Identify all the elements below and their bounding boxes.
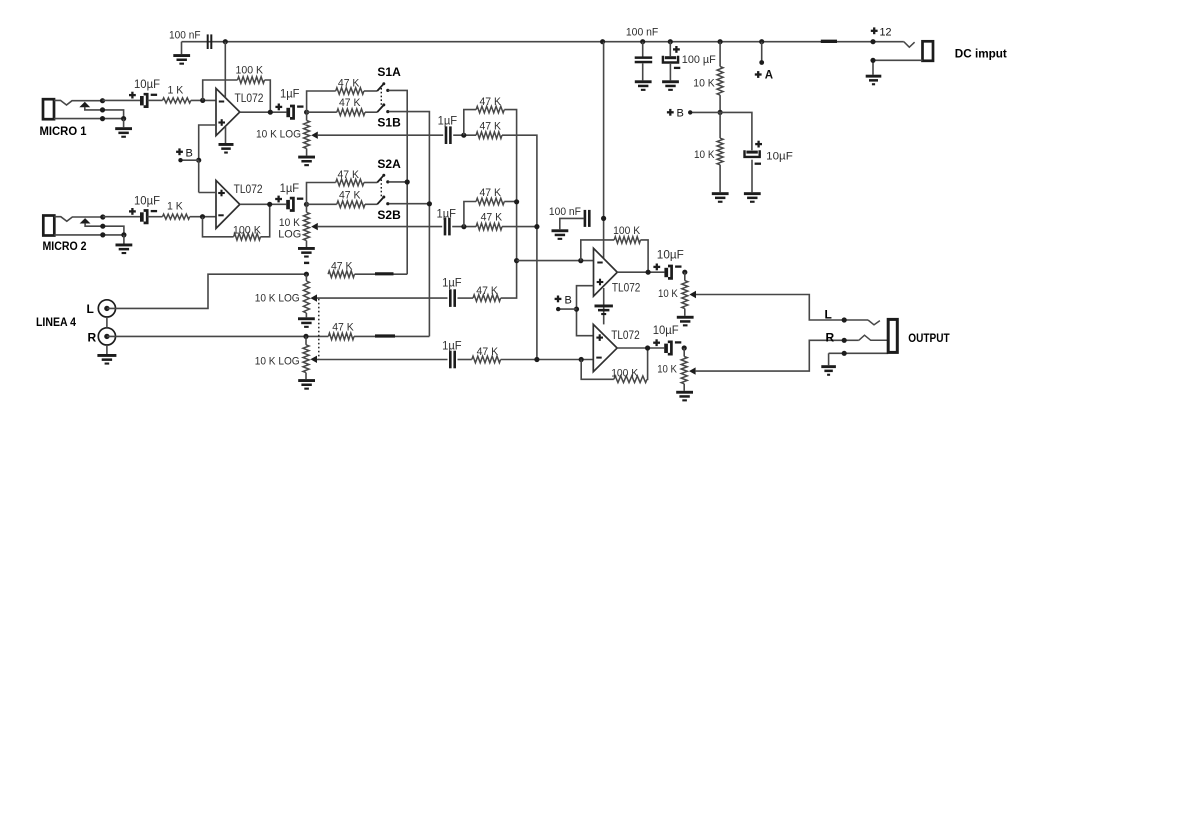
capacitor 10uF mic1 bbox=[129, 92, 157, 107]
resistor 47K mic1 to R bus bbox=[476, 132, 502, 139]
node mic2 mix split bbox=[461, 224, 466, 229]
node S2A on bus A bbox=[405, 179, 410, 184]
node +12 point bbox=[870, 39, 875, 44]
wire opamp2 output bbox=[240, 203, 286, 205]
ground 10uF +B bbox=[751, 160, 753, 193]
feedback loop opamp2: 100K bbox=[203, 217, 234, 237]
ground pot1 bbox=[306, 149, 308, 156]
jack MICRO 2 tip contact bbox=[54, 217, 103, 222]
ground 100uF bbox=[669, 63, 671, 80]
wire cap to R 1K mic2 bbox=[148, 216, 163, 218]
svg-text:10 K: 10 K bbox=[658, 288, 678, 300]
wire output R row bbox=[844, 339, 859, 341]
wire 100nF to ground bbox=[560, 218, 584, 229]
svg-text:L: L bbox=[87, 302, 94, 316]
ground shared op3-op4 bbox=[595, 305, 613, 316]
ground pot4 bbox=[305, 373, 307, 380]
svg-text:S1A: S1A bbox=[377, 65, 401, 79]
svg-text:S2A: S2A bbox=[377, 157, 401, 171]
svg-text:10 K: 10 K bbox=[657, 363, 677, 375]
svg-text:1µF: 1µF bbox=[438, 116, 458, 128]
svg-text:100 K: 100 K bbox=[233, 224, 262, 236]
wire mic1 node up to S1A row bbox=[307, 91, 336, 112]
svg-text:S2B: S2B bbox=[377, 208, 401, 222]
switch S1B bbox=[377, 103, 389, 113]
ground 10K lower bbox=[719, 165, 721, 192]
svg-text:47 K: 47 K bbox=[477, 346, 499, 358]
wire opamp1 + input to +B bbox=[199, 125, 216, 160]
node opamp3 inverting bbox=[578, 258, 583, 263]
svg-text:47 K: 47 K bbox=[332, 322, 354, 334]
op-amp U2A TL072 bbox=[594, 248, 618, 296]
output ground row bbox=[829, 352, 889, 354]
wire 1K to node bbox=[191, 99, 216, 101]
capacitor 100uF body bbox=[663, 56, 678, 63]
wire opamp1 output bbox=[240, 111, 287, 113]
wire S2A contact to bus A bbox=[388, 181, 407, 183]
capacitor 10uF out R bbox=[653, 339, 681, 354]
wire +B to 10uF filter bbox=[720, 112, 752, 150]
resistor 47K line-L bbox=[328, 271, 354, 278]
svg-text:10 K LOG: 10 K LOG bbox=[255, 355, 300, 367]
svg-text:MICRO 2: MICRO 2 bbox=[43, 239, 87, 253]
node opamp1 output bbox=[268, 110, 273, 115]
svg-text:OUTPUT: OUTPUT bbox=[908, 333, 949, 345]
node rail-100nF bbox=[640, 39, 645, 44]
svg-text:100 K: 100 K bbox=[611, 367, 639, 379]
node rail-opamp3 bus bbox=[600, 39, 605, 44]
svg-text:TL072: TL072 bbox=[612, 282, 641, 294]
potentiometer 10K out R bbox=[683, 348, 685, 357]
svg-text:S1B: S1B bbox=[377, 116, 401, 130]
svg-text:1µF: 1µF bbox=[280, 89, 300, 101]
svg-text:47 K: 47 K bbox=[339, 97, 361, 109]
wire +B stub out amps bbox=[558, 308, 576, 310]
op-amp U1A TL072 bbox=[216, 88, 240, 135]
wire node up to 47K-L row bbox=[464, 110, 476, 136]
wire node up to 47K-L row mic2 bbox=[464, 202, 476, 227]
wire mic1 node to S1B row 47K bbox=[307, 111, 337, 113]
ground G-railcap bbox=[181, 42, 183, 54]
stray dash below pot2 ground bbox=[304, 262, 309, 264]
node rail-10K bbox=[718, 39, 723, 44]
ground pot3 bbox=[305, 313, 307, 317]
svg-text:10 K: 10 K bbox=[279, 217, 301, 229]
svg-text:1 K: 1 K bbox=[168, 85, 184, 97]
svg-text:100 K: 100 K bbox=[236, 65, 264, 77]
svg-text:R: R bbox=[826, 331, 835, 345]
wire to bus L junction bbox=[504, 201, 516, 203]
resistor 47K line-R bbox=[328, 333, 354, 340]
jack MICRO 1 ring contact arrow bbox=[79, 102, 90, 107]
node +B out amps bbox=[574, 307, 579, 312]
resistor 47K S2B bbox=[337, 201, 365, 208]
wire to bus R corner bbox=[502, 135, 537, 359]
node out L bbox=[682, 270, 687, 275]
wire pot4 wiper to mix cap bbox=[317, 359, 448, 361]
node opamp3 output bbox=[646, 270, 651, 275]
svg-text:TL072: TL072 bbox=[611, 330, 640, 342]
wire 47K to S1A lever bbox=[364, 90, 377, 92]
wire to R summing row bbox=[501, 359, 594, 361]
node rail-opamp1 bbox=[223, 39, 228, 44]
wire opamp1 gnd bbox=[225, 127, 227, 143]
wire opamp4 output bbox=[617, 347, 664, 349]
feedback loop opamp1: 100K bbox=[203, 80, 238, 100]
potentiometer 10K LOG line-R bbox=[305, 336, 307, 344]
ground pot out L bbox=[684, 309, 686, 316]
resistor 47K mic2 to R bus bbox=[476, 223, 502, 230]
wire pot3 wiper to mix cap bbox=[317, 297, 448, 299]
jack MICRO 1 ring-sleeve tie bbox=[103, 110, 124, 119]
switch S2A bbox=[377, 174, 389, 184]
svg-text:A: A bbox=[765, 70, 773, 82]
output L spring contact bbox=[868, 320, 880, 325]
wire L jack to channel row bbox=[107, 274, 307, 308]
wire to bus R junction bbox=[502, 226, 537, 228]
svg-text:47 K: 47 K bbox=[481, 212, 503, 224]
jack MICRO 2 ground bbox=[123, 235, 125, 244]
capacitor 1uF mix line-L bbox=[449, 289, 456, 307]
feedback loop opamp3: 100K bbox=[581, 240, 614, 261]
svg-text:R: R bbox=[88, 330, 97, 344]
capacitor 10uF +B filter bbox=[745, 150, 760, 157]
node +B mic amps bbox=[196, 158, 201, 163]
capacitor 100uF bbox=[669, 42, 671, 57]
wire to bus L bottom corner bbox=[501, 261, 517, 299]
ground 100nF rail bbox=[642, 63, 644, 80]
wire opamp3 output bbox=[617, 271, 664, 273]
DC jack spring contact bbox=[904, 42, 915, 48]
node opamp2 output bbox=[267, 202, 272, 207]
wire mic2 node up to S2A row bbox=[307, 183, 336, 205]
op-amp U1B TL072 bbox=[216, 180, 240, 228]
wire opamp3 + input to +B bbox=[577, 286, 594, 336]
node L summing bbox=[514, 258, 519, 263]
svg-text:10µF: 10µF bbox=[657, 249, 684, 261]
wire 47K to bus B with thick dash bbox=[354, 335, 429, 337]
jack MICRO 1 terminal dots bbox=[100, 98, 105, 103]
wire cap to node bbox=[453, 134, 476, 136]
node opamp1 inverting input bbox=[200, 98, 205, 103]
svg-text:10µF: 10µF bbox=[134, 195, 160, 207]
capacitor 10uF out L bbox=[653, 264, 681, 279]
RCA jack R bbox=[98, 328, 115, 345]
svg-text:LINEA 4: LINEA 4 bbox=[36, 315, 76, 329]
svg-text:L: L bbox=[825, 308, 832, 322]
svg-text:1µF: 1µF bbox=[280, 183, 300, 195]
svg-text:1µF: 1µF bbox=[442, 277, 462, 289]
svg-text:47 K: 47 K bbox=[480, 187, 502, 199]
svg-text:47 K: 47 K bbox=[480, 96, 502, 108]
node opamp2 inverting input bbox=[200, 214, 205, 219]
wire 10K to +B node bbox=[719, 95, 721, 112]
wire pot2 wiper to mix cap bbox=[318, 226, 442, 228]
resistor 47K mic1 to L bus bbox=[476, 106, 504, 113]
capacitor 1uF mic1 out bbox=[275, 104, 303, 119]
label +A bbox=[761, 42, 763, 63]
node bus R bottom bbox=[534, 357, 539, 362]
node bus R mic2 bbox=[534, 224, 539, 229]
resistor 1K mic1 bbox=[163, 98, 191, 103]
wire mic2 tip to cap bbox=[103, 216, 140, 218]
node rail-100uF bbox=[668, 39, 673, 44]
svg-text:DC imput: DC imput bbox=[955, 48, 1007, 60]
jack MICRO 1 sleeve wire bbox=[54, 118, 124, 120]
wire RCA L-R link bbox=[106, 317, 108, 328]
wire cap to 47K line-L mix bbox=[458, 297, 474, 299]
wire L summing row bbox=[517, 260, 594, 262]
svg-text:47 K: 47 K bbox=[331, 260, 353, 272]
wire pot1 wiper to mix cap bbox=[318, 134, 443, 136]
potentiometer 10K LOG line-L bbox=[305, 274, 307, 281]
svg-text:B: B bbox=[186, 148, 193, 160]
potentiometer 10K out L bbox=[684, 272, 686, 280]
resistor 10K upper divider bbox=[719, 42, 721, 67]
switch S1A bbox=[377, 82, 389, 92]
ground output jack bbox=[828, 353, 830, 365]
wire cap to 47K line-R mix bbox=[458, 359, 472, 361]
svg-text:10 K LOG: 10 K LOG bbox=[255, 293, 300, 305]
capacitor 10uF mic2 bbox=[129, 208, 157, 223]
svg-text:47 K: 47 K bbox=[338, 78, 360, 90]
op-amp U2B TL072 bbox=[593, 324, 617, 371]
node out R bbox=[682, 345, 687, 350]
thick dash on rail bbox=[821, 40, 837, 43]
node +B divider bbox=[718, 110, 723, 115]
capacitor 1uF mix line-R bbox=[449, 351, 456, 369]
wire opamp1 power from rail bbox=[224, 42, 226, 98]
svg-text:TL072: TL072 bbox=[235, 93, 264, 105]
node mic1 mix split bbox=[461, 133, 466, 138]
wire to bus L corner bbox=[504, 110, 516, 261]
node 100nF on supply bus bbox=[601, 216, 606, 221]
svg-text:10µF: 10µF bbox=[134, 79, 160, 91]
svg-text:100 K: 100 K bbox=[613, 225, 641, 237]
jack OUTPUT body bbox=[888, 319, 897, 352]
svg-text:1 K: 1 K bbox=[167, 201, 183, 213]
node bus L mic2 bbox=[514, 199, 519, 204]
RCA jack L bbox=[98, 300, 115, 317]
svg-text:LOG: LOG bbox=[278, 229, 301, 241]
ground pot out R bbox=[683, 384, 685, 391]
svg-text:10 K: 10 K bbox=[694, 149, 715, 161]
jack MICRO 2 sleeve wire bbox=[54, 234, 124, 236]
wire S1A contact to bus A bbox=[388, 90, 407, 274]
jack DC body bbox=[923, 41, 934, 61]
svg-text:47 K: 47 K bbox=[480, 121, 502, 133]
resistor 47K S1B bbox=[337, 109, 365, 116]
wire opamp2 + input from +B bbox=[199, 192, 216, 194]
switch S2B bbox=[377, 196, 389, 206]
svg-text:47 K: 47 K bbox=[339, 190, 361, 202]
svg-text:10 K LOG: 10 K LOG bbox=[256, 129, 301, 141]
wire R wiper to output jack bbox=[696, 340, 845, 371]
svg-text:1µF: 1µF bbox=[442, 341, 462, 353]
DC ground return bbox=[873, 60, 923, 74]
wire +12V top rail bbox=[182, 41, 904, 43]
svg-text:TL072: TL072 bbox=[234, 184, 263, 196]
node opamp4 inverting bbox=[579, 357, 584, 362]
ground RCA bbox=[106, 345, 108, 354]
wire 47K to S2A lever bbox=[364, 182, 377, 184]
node S2B on bus B bbox=[427, 201, 432, 206]
capacitor 1uF mic2 out bbox=[275, 196, 303, 211]
capacitor C 100nF rail left bbox=[207, 34, 213, 49]
svg-text:B: B bbox=[565, 294, 572, 306]
svg-text:MICRO 1: MICRO 1 bbox=[40, 124, 87, 138]
wire S2B contact to bus B bbox=[389, 203, 430, 205]
node mic2 channel bbox=[304, 202, 309, 207]
svg-text:10 K: 10 K bbox=[693, 77, 715, 89]
wire mic1 tip to cap bbox=[103, 99, 141, 101]
svg-text:47 K: 47 K bbox=[338, 169, 360, 181]
node line-R channel bbox=[303, 334, 308, 339]
capacitor 100nF decouple bbox=[584, 210, 591, 227]
capacitor 1uF mix mic2 bbox=[444, 218, 451, 236]
gang dotted line S1 bbox=[380, 88, 382, 105]
wire mic2 node to S2B row 47K bbox=[307, 203, 337, 205]
jack MICRO 2 ring contact arrow bbox=[80, 218, 91, 223]
wire opamp3 gnd to shared ground bbox=[603, 288, 605, 324]
node mic1 channel bbox=[304, 110, 309, 115]
svg-text:100 µF: 100 µF bbox=[682, 54, 716, 66]
feedback loop opamp4: 100K bbox=[581, 360, 614, 380]
wire +B down to opamp2 bbox=[198, 160, 200, 192]
svg-text:100 nF: 100 nF bbox=[626, 27, 659, 39]
svg-text:1µF: 1µF bbox=[437, 208, 457, 220]
svg-text:10µF: 10µF bbox=[653, 325, 679, 337]
wire 47K to S2B lever bbox=[365, 203, 377, 205]
jack MICRO 2 ring-sleeve tie bbox=[103, 226, 124, 235]
ground opamp1 bbox=[219, 143, 234, 154]
ground pot2 bbox=[306, 241, 308, 247]
wire 47K to S1B lever bbox=[365, 111, 377, 113]
resistor 47K S2A bbox=[336, 179, 364, 186]
resistor 47K line-R to R bus bbox=[472, 356, 501, 363]
node opamp4 output bbox=[645, 345, 650, 350]
potentiometer 10K LOG mic2 bbox=[306, 204, 308, 212]
svg-text:100 nF: 100 nF bbox=[169, 30, 201, 42]
jack MICRO 1 ground bbox=[123, 119, 125, 128]
wire S1B contact to bus B bbox=[389, 112, 430, 337]
svg-text:12: 12 bbox=[880, 27, 892, 39]
wire L wiper to output jack bbox=[696, 295, 844, 321]
wire 47K to bus A with thick dash bbox=[355, 273, 408, 275]
+B stub divider bbox=[690, 111, 720, 113]
resistor 47K line-L to L bus bbox=[473, 295, 501, 302]
svg-text:100 nF: 100 nF bbox=[549, 206, 581, 218]
gang dotted line pots 3-4 bbox=[318, 299, 320, 359]
jack MICRO 1 tip contact bbox=[54, 100, 103, 105]
node line-L channel bbox=[304, 272, 309, 277]
capacitor 100nF rail decouple bbox=[642, 42, 644, 57]
capacitor 100nF opamp3 supply bbox=[603, 42, 605, 259]
jack MICRO 1 body bbox=[43, 99, 54, 119]
wire 1K to node mic2 bbox=[190, 216, 216, 218]
resistor 10K lower divider bbox=[719, 112, 721, 138]
svg-text:B: B bbox=[677, 107, 684, 119]
potentiometer 10K LOG mic1 bbox=[306, 112, 308, 120]
svg-text:47 K: 47 K bbox=[476, 285, 498, 297]
wire R jack to channel row bbox=[107, 335, 329, 337]
capacitor 1uF mix mic1 bbox=[445, 126, 452, 144]
wire +B stub bbox=[181, 159, 199, 161]
jack MICRO 2 terminal dots bbox=[100, 214, 105, 219]
output R spring contact bbox=[859, 335, 888, 340]
node rail +A tap bbox=[759, 39, 764, 44]
wire cap to R 1K bbox=[148, 99, 163, 101]
jack MICRO 2 body bbox=[43, 216, 54, 236]
wire cap to node mic2 mix bbox=[452, 226, 476, 228]
resistor 47K S1A bbox=[336, 88, 364, 95]
resistor 1K mic2 bbox=[163, 214, 190, 219]
label +12 bbox=[871, 27, 878, 34]
gang dotted line S2 bbox=[380, 179, 382, 196]
wire output L row bbox=[844, 319, 868, 321]
svg-text:10µF: 10µF bbox=[766, 151, 793, 163]
resistor 47K mic2 to L bus bbox=[476, 198, 504, 205]
